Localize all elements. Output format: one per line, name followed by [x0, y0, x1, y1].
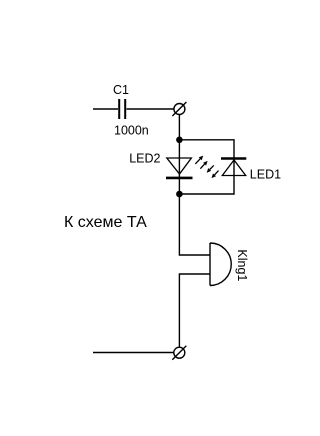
svg-text:LED2: LED2: [129, 151, 160, 165]
label C1: [113, 83, 129, 97]
label К схеме ТА: [64, 214, 147, 231]
wire: [127, 108, 175, 110]
wire: [179, 140, 234, 194]
label LED1: [250, 168, 281, 182]
svg-text:C1: C1: [113, 83, 129, 97]
terminal top: [172, 102, 186, 116]
terminal bottom: [172, 346, 186, 360]
LED1: [221, 159, 246, 176]
node junction bottom: [176, 191, 183, 198]
earpiece Klng1: [210, 243, 231, 286]
wire: [179, 274, 210, 347]
svg-text:Klng1: Klng1: [235, 249, 249, 281]
value label 1000n: [114, 124, 149, 138]
wire: [93, 108, 118, 110]
svg-text:LED1: LED1: [250, 168, 281, 182]
capacitor C1: [119, 99, 125, 119]
label Klng1: [235, 249, 249, 281]
svg-text:К схеме ТА: К схеме ТА: [64, 214, 147, 231]
svg-text:1000n: 1000n: [114, 124, 149, 138]
LED2: [166, 158, 193, 178]
label LED2: [129, 151, 160, 165]
wire: [93, 352, 174, 354]
light arrows: [195, 156, 218, 179]
node junction top: [176, 137, 183, 144]
wire: [179, 115, 210, 256]
